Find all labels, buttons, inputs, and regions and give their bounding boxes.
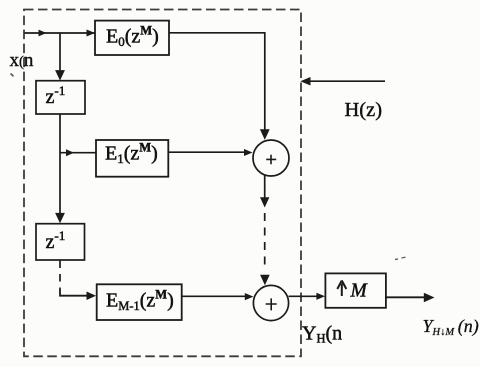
svg-text:x(n: x(n bbox=[10, 50, 34, 71]
svg-text:H(z): H(z) bbox=[345, 99, 383, 121]
svg-text:M: M bbox=[350, 281, 369, 302]
